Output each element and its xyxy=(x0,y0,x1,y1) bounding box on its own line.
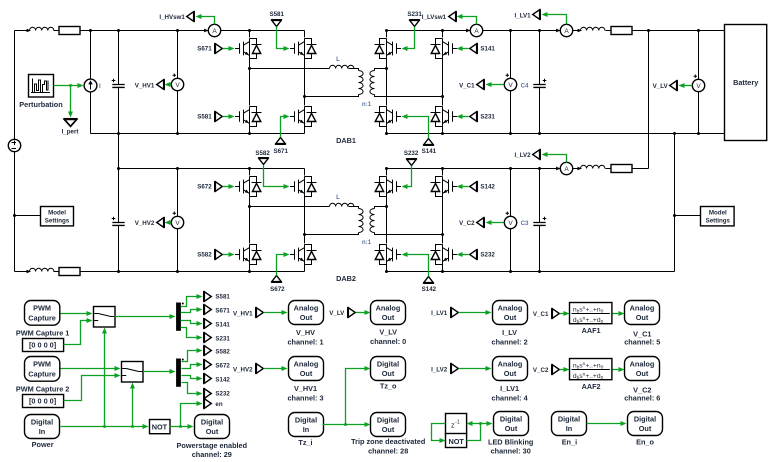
svg-text:I_LV1: I_LV1 xyxy=(515,13,532,20)
svg-text:S581: S581 xyxy=(215,294,230,301)
transistor S231 top-left IGBT DAB1 LV xyxy=(375,39,402,59)
node: DAB1 LV left leg midpoint xyxy=(385,67,388,70)
wire: green mux1 out S231 xyxy=(181,328,198,338)
wire: green const2 to switch2 xyxy=(64,376,115,401)
port V_HV1 in tag xyxy=(256,307,264,318)
wire: current source column xyxy=(90,31,92,134)
port S142 out tag xyxy=(204,373,212,384)
transistor S232 bottom-right IGBT DAB2 LV xyxy=(431,245,458,265)
svg-text:Trip zone deactivated: Trip zone deactivated xyxy=(351,437,425,446)
voltmeter V_HV1 xyxy=(177,31,179,134)
port S581 out tag xyxy=(204,291,212,302)
svg-text:Perturbation: Perturbation xyxy=(19,100,62,109)
wire: DAB2 secondary top xyxy=(375,207,387,209)
svg-text:L: L xyxy=(336,56,340,63)
transistor S142 bottom-left IGBT DAB2 LV xyxy=(375,245,402,265)
wire: green z-1 to NOT loop left xyxy=(432,424,446,441)
capacitor C3 column xyxy=(539,169,541,272)
svg-text:DAB1: DAB1 xyxy=(336,136,356,145)
port I_LV1 in tag xyxy=(451,307,459,318)
wire: green V_HV1 to Analog Out xyxy=(264,312,283,314)
wire: green V_HV2 xyxy=(167,222,172,224)
svg-text:S672: S672 xyxy=(270,286,285,293)
transformer T1 primary winding xyxy=(359,71,364,95)
svg-text:V_HV2: V_HV2 xyxy=(233,367,253,374)
node: DAB2 left leg midpoint xyxy=(248,205,251,208)
svg-text:V_HV: V_HV xyxy=(296,328,315,337)
svg-text:S141: S141 xyxy=(422,148,437,155)
svg-text:S142: S142 xyxy=(422,286,437,293)
transistor S582 bottom-left IGBT DAB2 xyxy=(235,245,262,265)
wire: HV1 bottom rail xyxy=(91,133,305,135)
wire: green V_C2 xyxy=(491,222,505,224)
wire: green S141 to LV bottom-left gate xyxy=(407,117,429,139)
transistor S582 top-right IGBT DAB2 xyxy=(290,177,317,197)
wire: green V_C1 to AAF1 xyxy=(560,313,565,315)
wire: green mux2 out S142 xyxy=(182,376,198,379)
wire: DAB2 secondary bottom xyxy=(375,233,443,235)
mux 1 xyxy=(176,303,184,331)
svg-text:channel: 3: channel: 3 xyxy=(287,393,323,402)
wire: green S232 gate xyxy=(463,254,469,256)
Analog Out V_C1 block xyxy=(625,301,660,325)
port S141 gate input right xyxy=(470,43,478,54)
wire: green S582 gate xyxy=(223,254,230,256)
inductor L DAB2 xyxy=(330,203,354,206)
wire: green perturbation to I source xyxy=(54,85,78,87)
port V_C1 in tag xyxy=(552,308,560,319)
AAF1 block xyxy=(570,303,612,325)
port S141 out tag xyxy=(204,318,212,329)
port I_LV2 in tag xyxy=(451,363,459,374)
voltage source V_dc xyxy=(8,139,20,151)
svg-text:S141: S141 xyxy=(215,321,230,328)
node: green junction perturbation branch xyxy=(69,84,72,87)
svg-text:S142: S142 xyxy=(480,184,495,191)
inductor L_HV2 xyxy=(27,268,54,273)
wire: DAB1 HV right leg xyxy=(304,31,306,134)
svg-text:S231: S231 xyxy=(407,11,422,18)
svg-text:S582: S582 xyxy=(255,150,270,157)
wire: green I_LV1 to Analog Out xyxy=(459,312,487,314)
ammeter I_HVsw1 xyxy=(204,24,221,36)
wire: green PWM2 to switch2 xyxy=(61,368,115,370)
svg-text:S671: S671 xyxy=(197,46,212,53)
wire: DAB1 LV left leg xyxy=(386,31,388,134)
svg-text:C4: C4 xyxy=(521,82,529,89)
wire: green S581 gate xyxy=(223,116,230,118)
port en out tag xyxy=(204,398,212,409)
wire: green select switch1 xyxy=(104,333,106,427)
wire: green S672 gate xyxy=(223,186,230,188)
svg-text:PWM Capture 1: PWM Capture 1 xyxy=(16,329,70,338)
inductor L DAB1 xyxy=(330,65,354,68)
transistor S142 top-right IGBT DAB2 LV xyxy=(431,177,458,197)
port V_LV in tag xyxy=(348,307,356,318)
svg-text:channel: 0: channel: 0 xyxy=(370,337,406,346)
wire: DAB1 primary top xyxy=(250,69,359,71)
AAF2 block xyxy=(570,359,612,381)
wire: green S142 to DAB2 LV bottom-left gate xyxy=(407,255,429,277)
Perturbation block xyxy=(29,75,54,98)
svg-text:Settings: Settings xyxy=(45,218,70,225)
svg-text:V_C1: V_C1 xyxy=(533,311,549,318)
svg-text:S582: S582 xyxy=(197,252,212,259)
port S232 top tag xyxy=(406,159,417,166)
svg-text:I_LV2: I_LV2 xyxy=(515,152,532,159)
svg-text:En_i: En_i xyxy=(562,438,577,447)
svg-text:Model: Model xyxy=(709,209,727,216)
svg-text:I_HVsw1: I_HVsw1 xyxy=(159,14,185,21)
transistor S141 bottom-left IGBT DAB1 LV xyxy=(375,107,402,127)
wire: green PWM1 to switch1 xyxy=(61,313,88,315)
wire: DAB1 LV right leg xyxy=(442,31,444,134)
port I_LV2 indicator xyxy=(533,149,541,160)
port S582 gate input xyxy=(215,249,223,260)
port I_LV1 indicator xyxy=(533,9,541,20)
wire: DAB2 primary top xyxy=(250,207,359,209)
svg-text:C3: C3 xyxy=(521,220,529,227)
port S581 top tag xyxy=(271,20,282,27)
wire: green V_LV to Analog Out xyxy=(356,312,365,314)
wire: green mux1 out S671 xyxy=(181,310,198,313)
transistor S141 top-right IGBT DAB1 LV xyxy=(431,39,458,59)
wire: LV2 bottom rail xyxy=(387,271,675,273)
svg-text:DAB2: DAB2 xyxy=(336,274,356,283)
wire: green en branch xyxy=(181,404,198,427)
svg-text:LED Blinking: LED Blinking xyxy=(488,438,533,447)
svg-text:V_HV1: V_HV1 xyxy=(135,82,155,89)
svg-text:I_LV1: I_LV1 xyxy=(431,310,448,317)
Digital In Tz_i block xyxy=(289,413,324,437)
node: DAB2 right leg midpoint xyxy=(303,233,306,236)
svg-text:I_LV: I_LV xyxy=(502,328,517,337)
svg-text:Power: Power xyxy=(32,440,54,449)
wire: green mux1 out S581 xyxy=(181,297,198,307)
port V_C2 in tag xyxy=(552,364,560,375)
svg-text:I: I xyxy=(99,83,101,90)
wire: green to I_LVsw1 tag xyxy=(462,17,477,25)
node: green junction select1 xyxy=(103,425,106,428)
port S671 bottom tag xyxy=(275,138,286,145)
wire: green switch2 to mux2 xyxy=(143,371,171,373)
Digital Out Tz_o block xyxy=(371,357,406,381)
wire: green to LED Digital Out xyxy=(481,423,488,425)
Analog Out I_LV block xyxy=(493,301,528,325)
wire: DAB2 primary bottom xyxy=(305,233,359,235)
resistor R_LV1 xyxy=(611,27,632,35)
svg-text:channel: 5: channel: 5 xyxy=(624,338,660,347)
wire: green const1 to switch1 xyxy=(64,321,88,345)
port S142 gate input right xyxy=(470,181,478,192)
svg-text:Battery: Battery xyxy=(733,78,759,87)
svg-text:AAF2: AAF2 xyxy=(582,382,601,391)
wire: LV2 negative link column xyxy=(674,134,676,272)
svg-text:S232: S232 xyxy=(215,391,230,398)
resistor R_HV1 xyxy=(59,27,80,35)
svg-text:V_LV: V_LV xyxy=(329,310,345,317)
port S582 out tag xyxy=(204,345,212,356)
ammeter I_LV2 xyxy=(556,162,573,174)
Digital Out Trip zone block xyxy=(371,413,406,437)
svg-text:I_LV2: I_LV2 xyxy=(431,367,448,374)
voltmeter V_C1 column xyxy=(510,31,512,134)
port V_C1 indicator xyxy=(477,79,485,90)
node dots LV rails xyxy=(385,29,700,273)
svg-text:S582: S582 xyxy=(215,349,230,356)
capacitor C_HV2 xyxy=(112,223,124,226)
wire: green mux2 out S232 xyxy=(182,383,198,394)
Digital In Power block xyxy=(25,415,60,439)
node: green junction en xyxy=(179,425,182,428)
port S672 bottom tag xyxy=(271,276,282,283)
PWM Capture 1 block xyxy=(25,301,60,326)
current source I xyxy=(84,79,97,92)
Digital Out En_o block xyxy=(628,412,663,436)
svg-text:-1: -1 xyxy=(455,419,460,425)
voltmeter V_C2 column xyxy=(510,169,512,272)
wire: green AAF2 to Analog Out xyxy=(613,369,619,371)
port V_HV2 indicator xyxy=(157,217,165,228)
wire: green S581 to top-right gate xyxy=(277,27,285,49)
wire: HV1 top rail xyxy=(15,30,305,32)
wire: green Power to NOT xyxy=(61,426,144,428)
wire: DAB2 LV output link column xyxy=(648,31,650,169)
ammeter I_LV1 xyxy=(556,24,573,36)
svg-text:S232: S232 xyxy=(480,252,495,259)
inductor L_LV2 xyxy=(578,165,605,170)
transistor S672 top-left IGBT DAB2 xyxy=(235,177,262,197)
svg-text:channel: 6: channel: 6 xyxy=(624,394,660,403)
svg-text:NOT: NOT xyxy=(448,437,464,446)
Analog Out V_HV1 block xyxy=(289,357,324,381)
svg-text:n:1: n:1 xyxy=(362,101,372,108)
wire: green NOT to Digital Out xyxy=(170,426,189,428)
voltmeter V_LV column xyxy=(698,31,700,134)
svg-text:V_LV: V_LV xyxy=(379,328,397,337)
wire: green mux1 out S141 xyxy=(181,321,198,324)
svg-text:[0 0 0 0]: [0 0 0 0] xyxy=(29,397,57,406)
svg-text:I_LV1: I_LV1 xyxy=(500,384,519,393)
wire: green Tz_i to Trip DO xyxy=(323,424,365,426)
wire: green to I_HVsw1 tag xyxy=(201,17,215,25)
wire: green S582 to DAB2 top-right gate xyxy=(264,166,285,187)
svg-text:V_C2: V_C2 xyxy=(459,220,475,227)
port S672 out tag xyxy=(204,359,212,370)
wire: green select switch2 xyxy=(132,389,134,427)
svg-text:n:1: n:1 xyxy=(362,239,372,246)
svg-text:V_LV: V_LV xyxy=(653,83,669,90)
wire: green S142 gate xyxy=(463,186,469,188)
svg-text:S672: S672 xyxy=(197,184,212,191)
svg-text:Powerstage enabled: Powerstage enabled xyxy=(177,441,248,450)
svg-text:S141: S141 xyxy=(480,46,495,53)
wire: HV2 bottom rail xyxy=(15,271,305,273)
transformer T1 secondary winding xyxy=(370,71,375,95)
port I_LVsw1 indicator xyxy=(449,11,457,22)
resistor R_LV2 xyxy=(611,165,632,173)
wire: green switch1 to mux1 xyxy=(115,316,170,318)
Battery block xyxy=(725,25,767,141)
Digital Out Powerstage block xyxy=(195,415,230,439)
wire: DAB1 secondary bottom xyxy=(375,95,443,97)
mux 2 xyxy=(176,359,184,387)
wire: green S671 to bottom-right gate xyxy=(281,117,285,138)
Model Settings right xyxy=(675,215,701,217)
port V_HV2 in tag xyxy=(256,363,264,374)
transformer T2 secondary winding xyxy=(370,209,375,233)
svg-text:S231: S231 xyxy=(480,114,495,121)
svg-text:PWM Capture 2: PWM Capture 2 xyxy=(16,385,70,394)
port S231 top tag xyxy=(409,20,420,27)
svg-text:S232: S232 xyxy=(404,150,419,157)
wire: DAB1 HV left leg xyxy=(249,31,251,134)
svg-text:channel: 29: channel: 29 xyxy=(192,450,232,459)
node dots HV rails xyxy=(89,29,251,273)
wire: green I_LV2 to Analog Out xyxy=(459,368,487,370)
svg-text:[0 0 0 0]: [0 0 0 0] xyxy=(29,341,57,350)
svg-text:I_pert: I_pert xyxy=(62,129,79,136)
port S671 gate input xyxy=(215,43,223,54)
port S581 gate input xyxy=(215,111,223,122)
wire: green to I_pert tag xyxy=(70,86,72,113)
capacitor C_HV1 xyxy=(112,85,124,88)
svg-text:S581: S581 xyxy=(197,114,212,121)
inductor L_LV1 xyxy=(578,27,605,32)
capacitor C4 column xyxy=(539,31,541,134)
svg-text:I_LVsw1: I_LVsw1 xyxy=(422,14,447,21)
Analog Out V_C2 block xyxy=(625,357,660,381)
wire: green mux2 out S672 xyxy=(182,365,198,369)
delay z-1 block xyxy=(446,414,467,435)
svg-text:channel: 1: channel: 1 xyxy=(287,337,323,346)
svg-text:V_C1: V_C1 xyxy=(459,82,475,89)
port S232 out tag xyxy=(204,388,212,399)
port S141 bottom tag xyxy=(423,139,434,146)
port S231 gate input right xyxy=(470,111,478,122)
svg-text:Tz_i: Tz_i xyxy=(298,438,312,447)
port V_C2 indicator xyxy=(477,217,485,228)
wire: green S231 gate xyxy=(463,116,469,118)
port S582 top tag xyxy=(258,158,269,165)
port I_HVsw1 indicator xyxy=(187,11,195,22)
Digital Out LED block xyxy=(494,412,529,436)
transistor S672 bottom-right IGBT DAB2 xyxy=(290,245,317,265)
transistor S671 top-left IGBT DAB1 xyxy=(235,39,262,59)
port V_HV1 indicator xyxy=(157,79,165,90)
node: DAB2 LV left leg midpoint xyxy=(385,205,388,208)
wire: green V_C1 xyxy=(491,84,505,86)
svg-text:channel: 30: channel: 30 xyxy=(491,447,531,456)
port V_LV indicator xyxy=(670,80,678,91)
svg-text:S671: S671 xyxy=(273,148,288,155)
NOT block xyxy=(150,420,171,434)
wire: green V_LV xyxy=(684,85,692,87)
svg-text:L: L xyxy=(336,194,340,201)
wire: LV1 bottom rail xyxy=(387,133,725,135)
transistor S671 bottom-right IGBT DAB1 xyxy=(290,107,317,127)
wire: green V_C2 to AAF2 xyxy=(560,369,565,371)
Analog Out V_HV block xyxy=(289,301,324,325)
wire: green AAF1 to Analog Out xyxy=(613,313,619,315)
svg-text:Tz_o: Tz_o xyxy=(380,382,397,391)
switch 2 xyxy=(122,362,144,383)
port I_pert xyxy=(63,119,77,127)
Model Settings left xyxy=(15,215,41,217)
transistor S232 top-left IGBT DAB2 LV xyxy=(375,177,402,197)
wire: green Tz branch to Tz_o xyxy=(346,369,365,425)
wire: left source column xyxy=(14,31,16,272)
Analog Out I_LV1 block xyxy=(493,357,528,381)
svg-text:V_HV1: V_HV1 xyxy=(294,384,317,393)
transformer T2 primary winding xyxy=(359,209,364,233)
svg-text:NOT: NOT xyxy=(152,423,168,432)
constant [0 0 0 0] block 1 xyxy=(23,339,64,352)
svg-text:S231: S231 xyxy=(215,335,230,342)
wire: green NOT to z-1 loop right xyxy=(467,424,481,441)
wire: green S672 to DAB2 bottom-right gate xyxy=(277,255,285,276)
inductor L_HV1 xyxy=(27,27,54,32)
node: green junction LED xyxy=(479,422,482,425)
svg-text:en: en xyxy=(215,401,222,408)
svg-text:channel: 28: channel: 28 xyxy=(368,447,408,456)
svg-text:S671: S671 xyxy=(215,307,230,314)
ammeter I_LVsw1 xyxy=(466,24,483,36)
transistor S581 top-right IGBT DAB1 xyxy=(290,39,317,59)
resistor R_HV2 xyxy=(59,268,80,276)
svg-text:channel: 2: channel: 2 xyxy=(492,337,528,346)
wire: LV1 top rail xyxy=(387,30,725,32)
transistor S231 bottom-right IGBT DAB1 LV xyxy=(431,107,458,127)
svg-text:En_o: En_o xyxy=(636,438,654,447)
node: DAB1 right leg midpoint xyxy=(303,95,306,98)
transistor S581 bottom-left IGBT DAB1 xyxy=(235,107,262,127)
svg-text:V_HV1: V_HV1 xyxy=(233,311,253,318)
Analog Out V_LV block xyxy=(371,301,406,325)
svg-text:S142: S142 xyxy=(215,377,230,384)
wire: DAB1 primary bottom xyxy=(305,95,359,97)
svg-text:S672: S672 xyxy=(215,363,230,370)
switch 1 xyxy=(94,307,116,328)
wire: green S232 to DAB2 LV top-left gate xyxy=(407,166,412,187)
wire: DAB2 LV right leg xyxy=(442,169,444,272)
port S231 out tag xyxy=(204,332,212,343)
wire: green mux2 out S582 xyxy=(182,351,198,362)
wire: HV2 top rail xyxy=(119,168,305,170)
svg-text:S581: S581 xyxy=(269,11,284,18)
svg-text:Settings: Settings xyxy=(706,218,731,225)
svg-text:V_C2: V_C2 xyxy=(533,367,549,374)
node: DAB1 LV right leg midpoint xyxy=(441,95,444,98)
svg-text:Model: Model xyxy=(48,209,66,216)
wire: DAB2 HV right leg xyxy=(304,169,306,272)
port S671 out tag xyxy=(204,304,212,315)
wire: DC-link capacitor column xyxy=(118,31,120,272)
svg-text:V_HV2: V_HV2 xyxy=(135,220,155,227)
wire: green S671 gate xyxy=(223,48,230,50)
wire: green to I_LV2 tag xyxy=(547,155,567,163)
svg-text:channel: 4: channel: 4 xyxy=(492,393,529,402)
constant [0 0 0 0] block 2 xyxy=(23,395,64,408)
node: green junction select2 xyxy=(131,425,134,428)
svg-text:AAF1: AAF1 xyxy=(582,326,601,335)
node: DAB2 LV right leg midpoint xyxy=(441,233,444,236)
wire: green V_HV1 xyxy=(167,84,172,86)
wire: DAB1 secondary top xyxy=(375,69,387,71)
voltmeter V_HV2 xyxy=(177,169,179,272)
wire: green S231 to LV top-left gate xyxy=(407,27,415,49)
PWM Capture 2 block xyxy=(25,357,60,382)
